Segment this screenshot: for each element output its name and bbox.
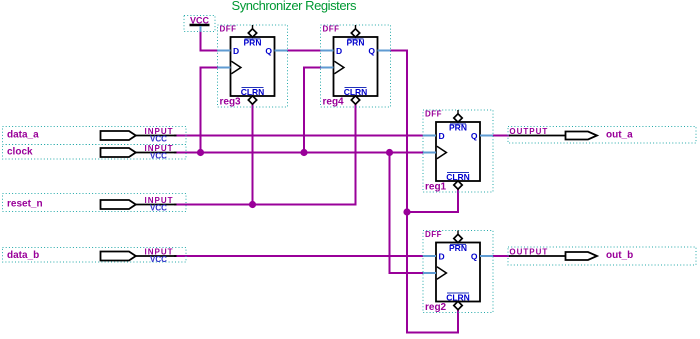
input pin data_b box	[3, 248, 187, 263]
wire reg1 Q to out_a	[493, 135, 510, 137]
svg-text:data_a: data_a	[7, 130, 39, 141]
wire VCC to reg3 D	[201, 31, 218, 51]
svg-text:clock: clock	[7, 147, 33, 158]
output pin out_a	[509, 127, 597, 139]
output pin out_b	[509, 248, 597, 260]
svg-text:reg2: reg2	[425, 302, 447, 313]
wire reg2 Q to out_b	[493, 255, 510, 257]
wire clock drop to reg2 CLK	[390, 153, 424, 274]
VCC selection dashed box	[184, 16, 215, 32]
wire reset_n branch to reg3 CLRN	[252, 104, 254, 204]
svg-text:out_b: out_b	[606, 250, 633, 261]
junction reg4 Q/reg1 CLRN	[403, 208, 410, 215]
wire reg4 Q branch to reg1 CLRN	[407, 189, 458, 212]
input pin reset_n box	[3, 194, 187, 212]
input pin clock	[101, 144, 177, 161]
junction clock/reg4	[300, 149, 307, 156]
wire reg3 Q to reg4 D	[288, 50, 321, 52]
svg-text:reg1: reg1	[425, 182, 447, 193]
VCC pin stub	[200, 26, 202, 32]
wire clock net horizontal	[174, 152, 423, 154]
input pin data_b	[101, 248, 177, 265]
wire data_a to reg1 D	[174, 135, 423, 137]
svg-text:reg3: reg3	[220, 97, 242, 108]
svg-text:Synchronizer Registers: Synchronizer Registers	[232, 0, 358, 13]
svg-text:reset_n: reset_n	[7, 199, 43, 210]
flip-flop reg3	[218, 25, 288, 108]
input pin clock box	[3, 145, 187, 160]
output pin out_b box	[508, 247, 696, 265]
input pin data_a	[101, 127, 177, 144]
input pin reset_n	[101, 196, 177, 213]
flip-flop reg2	[423, 230, 493, 313]
wire data_b to reg2 D	[174, 255, 423, 257]
input pin data_a box	[3, 127, 187, 145]
junction clock/reg3	[197, 149, 204, 156]
svg-text:reg4: reg4	[323, 97, 345, 108]
output pin out_a box	[508, 127, 696, 144]
flip-flop reg4	[321, 25, 391, 108]
wire reg4 Q down to reg2 CLRN	[391, 51, 459, 333]
wire clock riser to reg4 CLK	[304, 68, 321, 153]
svg-text:out_a: out_a	[606, 130, 633, 141]
junction reset_n/reg3 CLRN	[249, 201, 256, 208]
VCC rail bar	[190, 24, 210, 27]
flip-flop reg1	[423, 110, 493, 193]
svg-text:data_b: data_b	[7, 250, 39, 261]
junction clock/reg2	[386, 149, 393, 156]
power symbol VCC	[184, 16, 215, 32]
wire clock riser to reg3 CLK	[201, 68, 218, 153]
wire reset_n net to reg4 CLRN	[174, 104, 356, 204]
